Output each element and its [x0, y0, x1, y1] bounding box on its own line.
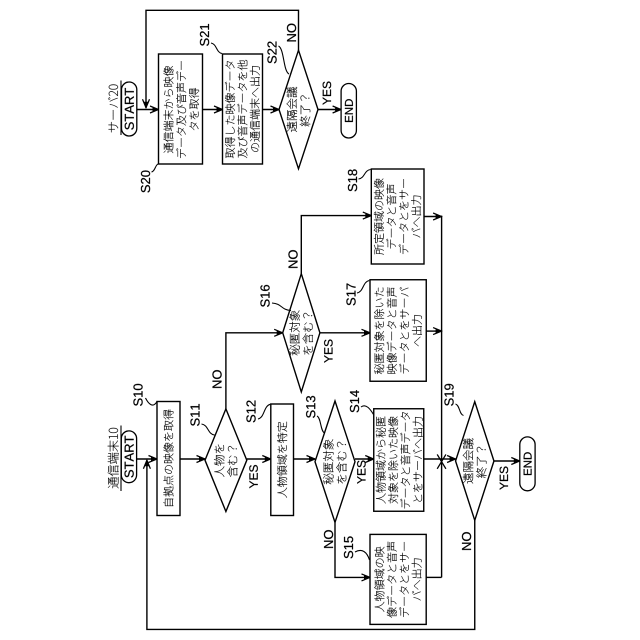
wire: S19 NO loop back to client main line	[147, 460, 475, 629]
wire: server START to S20	[137, 109, 159, 111]
process box S21	[223, 54, 263, 164]
wire: S13 NO to S15	[335, 523, 370, 578]
wire: S11 NO to S16	[226, 333, 283, 409]
wire: client START to S10	[137, 458, 157, 460]
label NO (S16)	[288, 250, 297, 268]
wire: S19 YES to client END	[494, 460, 520, 462]
wire: merge line to S19	[442, 458, 456, 460]
wire: S18 down to merge line	[424, 216, 442, 218]
process box S17	[370, 280, 426, 382]
terminal: server END oval	[341, 84, 356, 139]
label: server lane title サーバ20	[108, 81, 121, 136]
flowchart drawn in readable orientation then rotated 90deg CCW as in the patent figure	[108, 10, 535, 629]
label NO (S13)	[324, 530, 333, 548]
wire: S15 down to merge line	[426, 576, 441, 578]
label: client lane title 通信端末10	[108, 426, 121, 492]
label S18	[348, 169, 371, 191]
label S13	[306, 396, 324, 433]
label S11	[190, 404, 214, 435]
wire: S17 down to merge line	[426, 330, 441, 332]
label YES (S22)	[323, 82, 331, 105]
decision diamond S16	[283, 274, 320, 392]
label S16	[260, 285, 291, 311]
label YES (S16)	[324, 340, 332, 363]
process box S14	[374, 409, 424, 512]
decision diamond S22	[279, 50, 318, 169]
wire: S11 YES to S12	[247, 458, 271, 460]
wire: S16 YES to S17	[320, 332, 370, 334]
process box S12	[271, 404, 294, 516]
wire: S13 YES to S14	[355, 458, 374, 460]
label S20	[141, 164, 159, 193]
label S19	[444, 384, 463, 416]
decision diamond S11	[205, 409, 247, 512]
process box S10	[157, 402, 180, 516]
label S22	[267, 42, 289, 74]
terminal: client START oval	[121, 431, 136, 483]
process box S18	[371, 169, 424, 264]
label S15	[344, 536, 370, 560]
wire: S16 NO to S18	[301, 216, 371, 274]
process box S15	[370, 534, 426, 624]
label S10	[133, 384, 157, 406]
decision diamond S13	[315, 401, 355, 522]
label S12	[246, 401, 270, 423]
wire: S22 NO loop back to server main line	[146, 10, 299, 107]
junction: S14 arrow crossing merge line	[437, 454, 446, 468]
wire: merge line	[441, 216, 443, 578]
label S21	[200, 24, 222, 53]
label S17	[346, 281, 369, 306]
label S14	[350, 390, 374, 414]
wire: S10 to S11	[180, 458, 205, 460]
label NO (S19)	[462, 532, 471, 550]
wire: S21 to S22	[263, 109, 280, 111]
wire: S14 down to merge line	[424, 458, 442, 460]
label YES (S11)	[249, 465, 257, 488]
terminal: client END oval	[520, 437, 535, 491]
wire: S22 YES to server END	[318, 109, 341, 111]
label YES (S13)	[357, 461, 365, 484]
label NO (S11)	[212, 370, 221, 388]
terminal: server START oval	[122, 82, 137, 136]
label NO (S22)	[287, 24, 296, 42]
wire: S12 to S13	[294, 458, 316, 460]
label YES (S19)	[500, 467, 508, 490]
decision diamond S19	[456, 402, 494, 521]
wire: S20 to S21	[203, 109, 223, 111]
process box S20	[159, 54, 203, 164]
